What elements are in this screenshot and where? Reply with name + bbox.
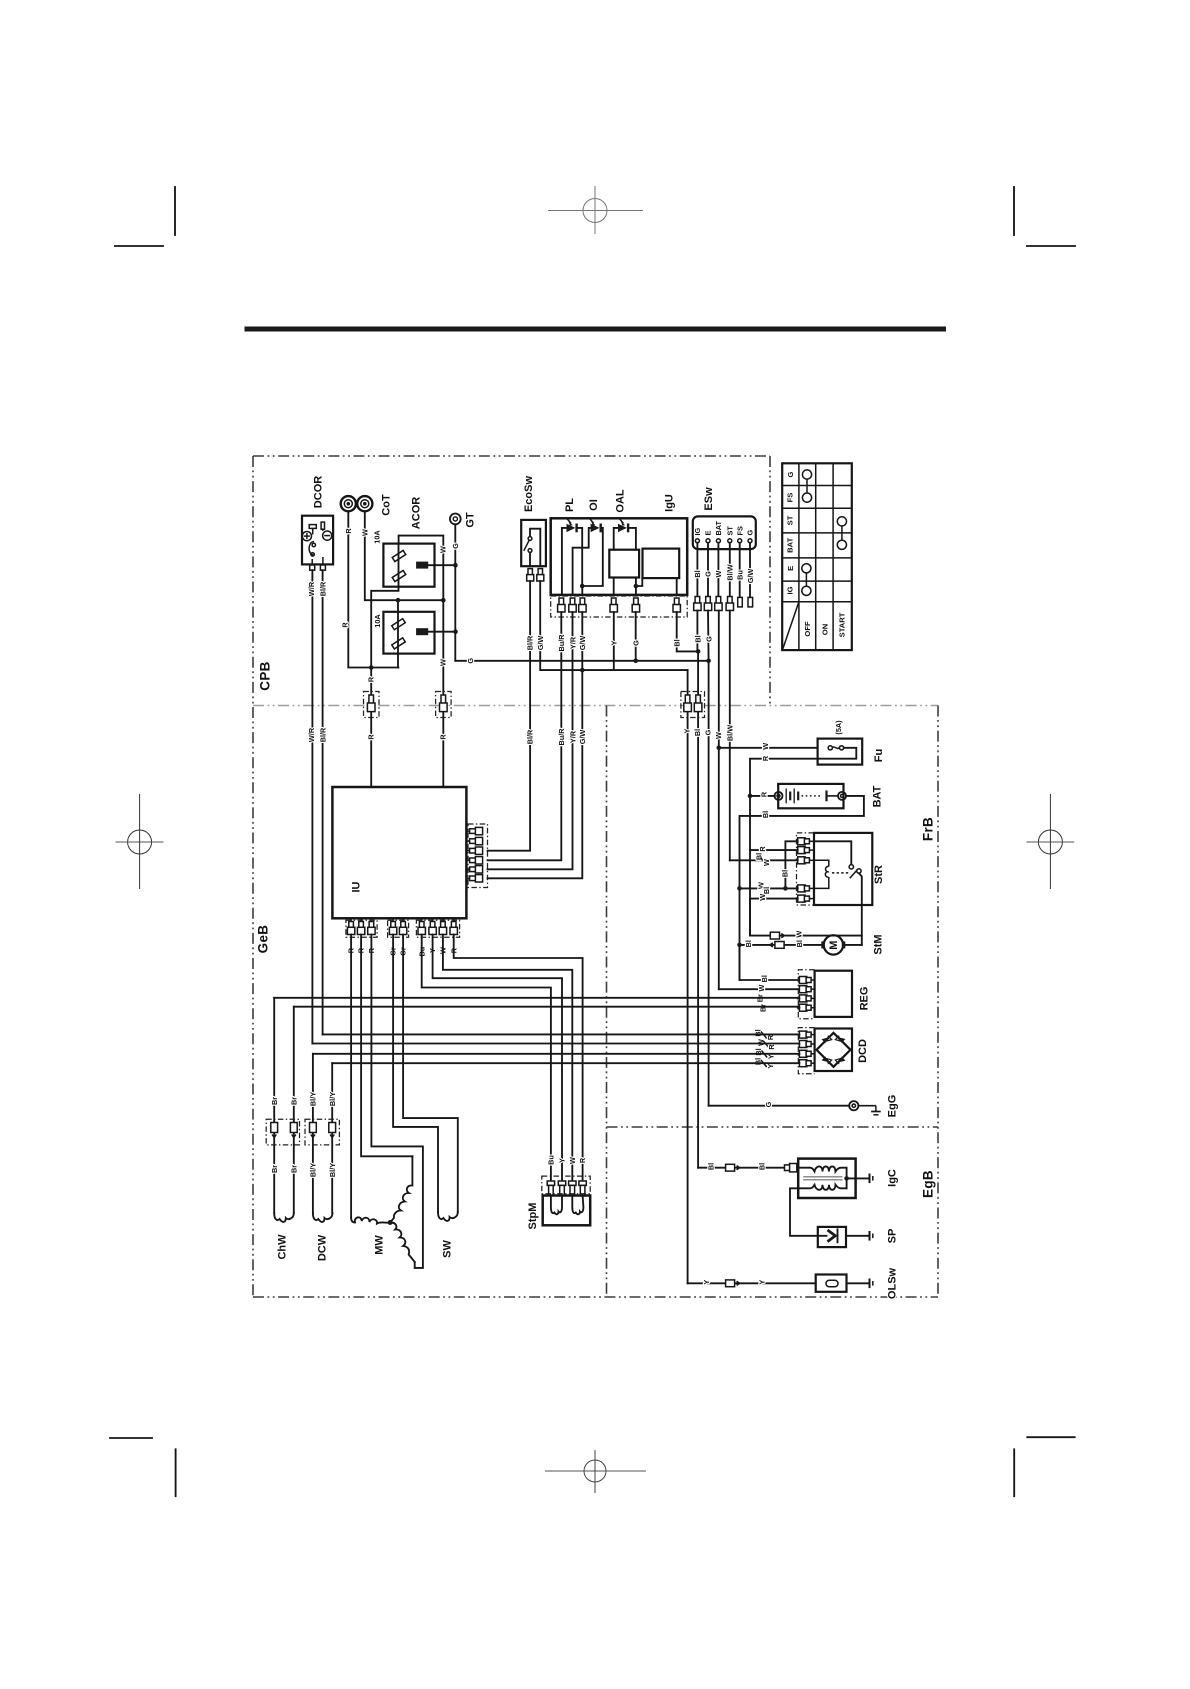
registration crosshair left-middle <box>116 794 164 889</box>
diode OI <box>573 518 603 595</box>
wire W to StpM <box>443 935 572 1182</box>
wire G/W IgU pin3 down <box>488 612 583 878</box>
OLSw float symbol <box>826 1280 838 1287</box>
wire Bl to IgC <box>698 1167 784 1169</box>
svg-text:10A: 10A <box>373 530 382 544</box>
wire h5 Bl/Y DCW to DCD <box>313 1053 800 1055</box>
starter motor StM <box>821 935 862 954</box>
svg-text:Bu/R: Bu/R <box>557 728 566 746</box>
BAT plates <box>786 789 798 804</box>
svg-text:Bu: Bu <box>735 570 744 580</box>
wire h1 Br ChW to REG <box>274 997 799 1000</box>
DCOR contact blade B <box>321 522 324 529</box>
wire G from GT down <box>454 524 456 660</box>
wire Bl ESw <box>696 543 698 597</box>
OLSw output lead <box>847 1282 870 1284</box>
wire Bl to boundary <box>697 651 699 1167</box>
IU bottom pin 6 <box>418 918 425 934</box>
ESw terminal FS <box>738 539 742 543</box>
svg-text:Y: Y <box>766 1064 775 1069</box>
svg-text:W: W <box>757 984 766 991</box>
wire Y IgU pin4 down <box>613 612 615 670</box>
fuse element box2 upper <box>392 619 406 630</box>
svg-text:Bl: Bl <box>672 639 681 646</box>
REG pin1 <box>799 977 814 984</box>
wire ChW Br 2 vertical <box>293 1007 295 1213</box>
IU bottom pin 9 <box>450 918 457 934</box>
svg-text:EcoSw: EcoSw <box>523 476 535 513</box>
svg-text:MW: MW <box>374 1235 386 1255</box>
wire R1 to MW <box>350 935 352 1218</box>
wire Bl/R EcoSw to IU <box>488 581 531 851</box>
GT terminal bullseye <box>450 514 461 525</box>
wire R2 to MW jumper <box>361 935 412 1157</box>
wire R to connector and IU <box>370 668 372 788</box>
wire W StR pin5 to StM <box>750 899 798 936</box>
StpM winding 1 <box>551 1196 562 1215</box>
svg-text:W: W <box>714 732 723 739</box>
svg-text:REG: REG <box>859 987 871 1011</box>
wire R3 to MW return <box>371 935 423 1268</box>
wire W ESw <box>717 543 719 597</box>
IU right pin 3 <box>466 847 482 854</box>
wire G/W IgU pin3 <box>581 586 583 595</box>
EcoSw switch contacts <box>528 537 532 541</box>
wire R to StR pin2 <box>750 849 798 851</box>
table rows <box>782 486 852 602</box>
junction dot W/Bl at Bl vertical <box>737 886 742 891</box>
IU bottom pin 3 <box>368 918 375 934</box>
fuse element box2 lower <box>392 638 406 649</box>
inline connector Bl IgC <box>726 1164 740 1171</box>
IgU pin4 lead <box>613 578 615 595</box>
svg-text:R: R <box>340 622 349 628</box>
bracket ChW connectors <box>266 1119 299 1145</box>
fuse internal return <box>818 748 857 759</box>
svg-text:Y: Y <box>558 1158 567 1163</box>
svg-text:FS: FS <box>785 493 794 503</box>
svg-text:Bl/Y: Bl/Y <box>309 1163 318 1177</box>
svg-text:StR: StR <box>873 865 885 884</box>
crop mark bottom-right vertical <box>1013 1449 1015 1496</box>
StpM pin 4 <box>579 1181 586 1196</box>
starter relay StR box <box>814 833 872 905</box>
inline connector Y OLSw <box>726 1280 740 1287</box>
table START BAT-ST contact <box>837 517 846 550</box>
svg-text:R: R <box>438 734 447 740</box>
StR pin4 <box>798 885 814 892</box>
EcoSw internal wiring <box>530 529 540 567</box>
StpM winding 2 <box>572 1196 583 1215</box>
svg-text:R: R <box>366 676 375 682</box>
svg-text:G: G <box>631 640 640 646</box>
wire G IgU pin5 down <box>635 612 637 661</box>
svg-text:BAT: BAT <box>786 537 795 552</box>
bracket connector R <box>364 692 380 718</box>
border CPB right <box>769 456 771 705</box>
svg-text:Bl: Bl <box>693 729 702 736</box>
inline connector ChW1 <box>271 1123 278 1138</box>
svg-text:R: R <box>366 734 375 740</box>
wire h4 W/R to DCD <box>312 1043 799 1046</box>
border horizontal CPB bottom / FrB top <box>253 705 938 707</box>
wire W to connector and IU <box>442 600 444 787</box>
svg-text:W: W <box>762 859 771 866</box>
spark plug SP box <box>818 1227 846 1247</box>
wire IgC to SP <box>790 1188 818 1236</box>
svg-text:R: R <box>344 528 353 534</box>
svg-text:W: W <box>758 894 767 901</box>
svg-text:Bl/Y: Bl/Y <box>328 1092 337 1106</box>
wire G ESw lower <box>707 611 710 661</box>
bracket Y/Bl boundary connectors <box>681 692 705 718</box>
wire G/W ESw stub <box>749 543 751 598</box>
svg-text:W: W <box>794 931 803 938</box>
svg-text:StpM: StpM <box>527 1203 539 1230</box>
svg-text:IgU: IgU <box>664 494 676 512</box>
divider FrB / EgB horizontal <box>607 1126 939 1128</box>
wire Y to boundary <box>687 670 689 1283</box>
svg-text:START: START <box>838 612 847 637</box>
svg-text:W: W <box>361 529 370 536</box>
svg-text:W: W <box>714 570 723 577</box>
svg-text:Fu: Fu <box>873 749 885 762</box>
junction dot Bl join <box>696 649 701 654</box>
IU right pin 6 <box>466 875 482 882</box>
wire DCW Bl/Y 2 vertical <box>331 1063 333 1213</box>
key switch table outer <box>782 463 852 650</box>
svg-text:IgC: IgC <box>887 1169 899 1187</box>
wire G to EgG <box>709 1105 850 1107</box>
IU right pin 1 <box>466 827 482 834</box>
bracket StpM pins <box>542 1176 590 1194</box>
svg-text:R: R <box>760 791 769 797</box>
svg-text:Y: Y <box>610 640 619 645</box>
crop mark top-left horizontal <box>115 245 163 247</box>
table OFF G-FS contact <box>802 470 811 502</box>
border CPB top <box>253 455 770 457</box>
svg-text:Bl/R: Bl/R <box>319 581 328 596</box>
crop mark top-right vertical <box>1013 187 1015 235</box>
svg-text:CoT: CoT <box>381 494 393 516</box>
wire Bu to StpM <box>422 935 551 1182</box>
wire W to StM motor <box>750 935 862 937</box>
bracket IgU connectors <box>551 596 688 617</box>
svg-text:G/W: G/W <box>746 569 755 584</box>
DCD pin1 <box>799 1031 814 1038</box>
ACOR box1 output terminal <box>416 562 428 569</box>
wire Bl/R from DCOR <box>322 570 324 1034</box>
MW junction dot <box>388 1220 393 1225</box>
IU bottom pin 1 <box>347 918 354 934</box>
svg-text:IG: IG <box>786 586 795 594</box>
StR pin5 <box>798 895 814 902</box>
StR coil <box>814 860 829 888</box>
bracket REG pins <box>798 970 814 1019</box>
StpM pin 1 <box>547 1181 554 1196</box>
svg-text:Bl/R: Bl/R <box>319 727 328 742</box>
svg-text:G: G <box>704 729 713 735</box>
wire W from CoT down <box>365 512 444 601</box>
ACOR box2 output terminal <box>416 628 428 635</box>
stepper motor StpM box <box>543 1196 591 1226</box>
IU right pin 4 <box>466 857 482 864</box>
wire Gr1 to SW <box>393 935 438 1213</box>
IgU pin6 lead <box>676 578 678 595</box>
inline connector DCW1 <box>310 1123 317 1138</box>
border bottom GeB/EgB <box>253 1296 938 1298</box>
registration crosshair bottom-center <box>545 1450 646 1493</box>
svg-text:Bl/W: Bl/W <box>725 725 734 741</box>
wire R from fuse <box>750 759 818 936</box>
oil level switch OLSw box <box>816 1275 847 1292</box>
MW left winding <box>351 1217 390 1223</box>
wire Y to OLSw <box>688 1282 816 1284</box>
svg-text:E: E <box>704 531 713 536</box>
svg-text:Y: Y <box>702 1280 711 1285</box>
CoT terminal W bullseye <box>357 496 372 511</box>
wire Bl/W to FrB <box>729 611 731 861</box>
crop mark bottom-right horizontal <box>1027 1436 1074 1438</box>
svg-text:W: W <box>568 1157 577 1164</box>
svg-text:Bl/Y: Bl/Y <box>328 1163 337 1177</box>
svg-text:G: G <box>451 543 460 549</box>
svg-text:DCD: DCD <box>857 1039 869 1063</box>
registration crosshair top-center <box>548 186 643 234</box>
crop mark top-left vertical <box>174 187 176 235</box>
junction dot R tap <box>369 665 374 670</box>
inline connector Bl StM <box>770 942 784 949</box>
registration crosshair right-middle <box>1026 794 1074 889</box>
IU bottom pin 7 <box>429 918 436 934</box>
ignition unit IgU box <box>551 518 688 595</box>
StR switch blade <box>850 870 858 879</box>
bracket StR pins <box>797 833 815 905</box>
battery BAT box <box>778 784 843 808</box>
wire Bl vertical to REG pin1 <box>740 945 798 980</box>
wire G horizontal <box>455 660 708 662</box>
thick chapter rule <box>245 327 947 332</box>
svg-text:ST: ST <box>785 515 794 525</box>
ESw terminal IG <box>695 539 699 543</box>
junction dot G <box>633 659 638 664</box>
svg-text:Bl: Bl <box>795 940 804 947</box>
DC outlet receptacle DCOR box <box>302 516 333 565</box>
DCOR minus terminal <box>323 531 332 540</box>
wire h3 Bl/R to DCD <box>323 1033 800 1035</box>
svg-text:Bl/W: Bl/W <box>725 564 734 580</box>
fuse element box1 upper <box>392 550 406 561</box>
svg-text:Y/R: Y/R <box>568 636 577 649</box>
wire G to FrB <box>708 661 710 1106</box>
wire W to FrB <box>718 611 720 990</box>
svg-text:Bu: Bu <box>547 1155 556 1165</box>
svg-text:G: G <box>466 658 475 664</box>
IgC HT lead <box>847 1177 870 1179</box>
svg-text:SW: SW <box>442 1240 454 1258</box>
coil DCW <box>313 1213 333 1222</box>
svg-text:G/W: G/W <box>536 636 545 651</box>
svg-text:W: W <box>438 659 447 666</box>
svg-text:BAT: BAT <box>714 521 723 536</box>
ESw connector pins <box>694 597 753 611</box>
StpM pin 2 <box>558 1181 565 1196</box>
REG pin3 <box>799 995 814 1002</box>
junction dot PL/OI cathodes <box>580 584 585 589</box>
relay box inner rect2 <box>643 549 680 579</box>
SP gap symbol <box>870 1231 873 1241</box>
wire Bu/R IgU pin1 down <box>488 612 562 860</box>
svg-text:Y/R: Y/R <box>568 730 577 743</box>
svg-text:Bl: Bl <box>758 1163 767 1170</box>
economizer switch EcoSw box <box>521 520 546 566</box>
bracket DCW connectors <box>305 1119 339 1145</box>
wire DCW Bl/Y 1 vertical <box>312 1054 314 1213</box>
svg-text:Br: Br <box>289 1097 298 1105</box>
StR pin2 <box>798 847 814 854</box>
wire box2 terminal to G <box>428 631 455 633</box>
table OFF IG-E contact <box>802 564 811 596</box>
svg-text:Bl: Bl <box>762 887 771 894</box>
fuse element box1 lower <box>392 570 406 581</box>
svg-text:G: G <box>786 471 795 477</box>
svg-text:Bl: Bl <box>706 1163 715 1170</box>
wire G/W EcoSw down <box>540 581 687 670</box>
IU bottom pin 8 <box>439 918 446 934</box>
svg-text:StM: StM <box>872 934 884 954</box>
IU bottom pin 5 <box>399 918 406 934</box>
wire W/Bl to StR pin4 <box>740 887 798 889</box>
SP output lead <box>847 1235 870 1237</box>
ignition coil IgC box <box>798 1159 855 1198</box>
ACOR fuse box 1 <box>383 544 434 587</box>
svg-text:W/R: W/R <box>307 727 316 742</box>
svg-text:Y: Y <box>683 728 692 733</box>
inline connector W StM <box>770 932 784 939</box>
svg-text:W/R: W/R <box>307 581 316 596</box>
svg-text:IG: IG <box>693 527 702 535</box>
StR switch contacts <box>849 865 853 869</box>
StR pin1 internal <box>814 841 851 864</box>
junction dot W-box2 tap <box>396 598 401 603</box>
bracket IU pins group2 <box>388 920 409 937</box>
svg-text:10A: 10A <box>373 614 382 628</box>
svg-text:DCW: DCW <box>317 1234 329 1261</box>
ESw connector box <box>693 516 756 549</box>
IgC input connector <box>785 1164 797 1172</box>
DCOR plus terminal <box>302 532 311 541</box>
svg-text:G: G <box>764 1101 773 1107</box>
diode PL <box>562 518 582 595</box>
svg-text:M: M <box>828 941 840 950</box>
junction dot R-BAT <box>748 794 753 799</box>
pass-through connector Bl boundary <box>694 695 702 712</box>
svg-text:FrB: FrB <box>921 817 936 841</box>
wire ChW Br 1 vertical <box>273 998 275 1213</box>
BAT dotted separator <box>802 795 823 797</box>
fuse Fu box <box>818 739 863 765</box>
fuse symbol <box>828 746 844 750</box>
CoT terminal R bullseye <box>341 496 356 511</box>
wire R to StpM <box>454 935 583 1182</box>
svg-text:Bl: Bl <box>760 975 769 982</box>
bracket DCD pins <box>798 1028 814 1074</box>
crop mark bottom-left horizontal <box>110 1437 152 1439</box>
IgU pin5 lead with rect2 tap <box>636 578 642 595</box>
wire Bl IgU pin6 jog <box>677 612 698 651</box>
svg-text:FS: FS <box>735 526 744 535</box>
divider GeB | FrB vertical <box>606 706 608 1298</box>
svg-text:Bl/Y: Bl/Y <box>309 1092 318 1106</box>
svg-text:E: E <box>786 566 795 571</box>
DCD pin2 <box>799 1041 814 1048</box>
svg-text:Y: Y <box>758 1280 767 1285</box>
ACOR box2 internal lead <box>397 600 399 667</box>
StpM pin 3 <box>569 1181 576 1196</box>
bracket IU pins group1 <box>346 920 377 937</box>
wire W to fuse <box>719 747 818 749</box>
svg-text:ChW: ChW <box>277 1234 289 1260</box>
diode OAL <box>614 518 636 549</box>
svg-text:GeB: GeB <box>256 925 271 954</box>
svg-text:(5A): (5A) <box>834 720 843 735</box>
pass-through connector R <box>367 695 375 712</box>
junction dot box1-G <box>453 563 458 568</box>
wire W to REG pin2 <box>719 988 798 990</box>
relay box OAL inner rect1 <box>609 550 639 578</box>
svg-text:Bl/R: Bl/R <box>525 635 534 650</box>
inline connector ChW2 <box>290 1123 297 1138</box>
svg-text:Br: Br <box>758 1004 767 1012</box>
IgC core lines <box>803 1177 842 1180</box>
DCOR hook contact circles <box>312 543 315 546</box>
wire R to BAT <box>750 795 775 797</box>
StR pin1 <box>798 838 814 845</box>
ACOR box1 internal lead <box>371 544 398 668</box>
StR pin3 <box>798 857 814 864</box>
wire Bl to StM motor <box>740 944 824 946</box>
DCD pin3 <box>799 1050 814 1057</box>
svg-text:G: G <box>705 636 714 642</box>
coil ChW <box>274 1213 294 1222</box>
svg-text:Br: Br <box>289 1165 298 1173</box>
wire Gr2 to SW <box>403 935 458 1213</box>
IU bottom pin 2 <box>357 918 364 934</box>
border FrB/EgB right <box>937 706 939 1298</box>
junction dot W fuse tap <box>717 746 722 751</box>
IgC spark gap <box>870 1174 873 1184</box>
wire R from CoT down <box>348 512 398 668</box>
junction dot pin5 <box>634 584 639 589</box>
table columns <box>799 463 833 650</box>
DCOR pin stems <box>312 557 323 565</box>
EgG ground symbol <box>858 1106 880 1115</box>
inline connector DCW2 <box>329 1123 336 1138</box>
wire Y/R IgU pin2 down <box>488 612 573 869</box>
svg-text:ON: ON <box>820 624 829 635</box>
ESw terminal BAT <box>716 539 720 543</box>
svg-text:OI: OI <box>588 499 600 511</box>
svg-text:G: G <box>704 571 713 577</box>
DCOR contact blade A <box>309 525 316 529</box>
DCOR bottom pin squares <box>310 565 315 570</box>
pass-through connector W <box>440 695 448 712</box>
SP electrode symbol <box>818 1229 838 1242</box>
pass-through connector Y boundary <box>684 695 692 712</box>
svg-text:OLSw: OLSw <box>887 1267 899 1299</box>
svg-text:Bl: Bl <box>744 940 753 947</box>
EcoSw pin connectors <box>527 569 544 581</box>
